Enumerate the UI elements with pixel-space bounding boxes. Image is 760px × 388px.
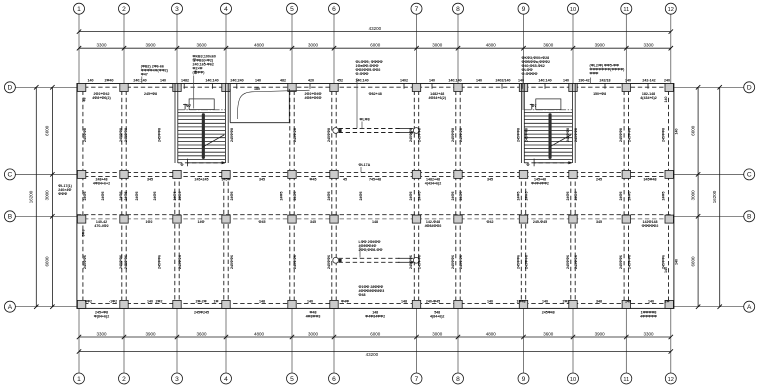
svg-text:190-42: 190-42 bbox=[578, 78, 589, 82]
svg-text:9: 9 bbox=[522, 6, 526, 13]
svg-text:Φ7: Φ7 bbox=[532, 104, 537, 108]
svg-text:245ΦΦ6: 245ΦΦ6 bbox=[574, 255, 578, 269]
svg-text:245ΦΦ6: 245ΦΦ6 bbox=[293, 255, 297, 269]
grid bubble 12 bottom bbox=[665, 373, 676, 384]
svg-text:140: 140 bbox=[625, 299, 631, 303]
svg-text:348: 348 bbox=[596, 299, 602, 303]
stair S1 landing rect bbox=[189, 99, 214, 110]
grid bubble 11 top bbox=[621, 3, 632, 14]
grid 7 beam dashed pair bbox=[413, 84, 415, 309]
svg-text:ΦLΦ8: ΦLΦ8 bbox=[360, 117, 370, 121]
svg-text:Φ7: Φ7 bbox=[186, 104, 191, 108]
svg-text:10: 10 bbox=[570, 377, 576, 383]
bottom overall dimension line bbox=[79, 351, 671, 353]
svg-text:24Φ5: 24Φ5 bbox=[293, 192, 297, 201]
svg-text:B: B bbox=[8, 214, 13, 221]
svg-text:24Φ5: 24Φ5 bbox=[525, 192, 529, 201]
svg-text:ΦΦΦ: ΦΦΦ bbox=[590, 72, 599, 76]
svg-text:245ΦΦ6: 245ΦΦ6 bbox=[459, 255, 463, 269]
svg-text:24Φ5: 24Φ5 bbox=[566, 192, 570, 201]
svg-text:452: 452 bbox=[337, 78, 343, 82]
svg-text:4Φ84+6+2: 4Φ84+6+2 bbox=[93, 182, 110, 186]
svg-text:4800: 4800 bbox=[486, 331, 497, 336]
svg-text:2: 2 bbox=[122, 6, 126, 13]
stair S1 left wall bbox=[174, 84, 176, 164]
grid bubble C left bbox=[4, 169, 15, 180]
svg-text:45: 45 bbox=[343, 178, 347, 182]
svg-text:345: 345 bbox=[487, 178, 493, 182]
svg-text:24Φ5: 24Φ5 bbox=[178, 192, 182, 201]
grid bubble 5 top bbox=[287, 3, 298, 14]
svg-text:24Φ5: 24Φ5 bbox=[135, 192, 139, 201]
svg-text:140: 140 bbox=[648, 299, 654, 303]
svg-text:24Φ5: 24Φ5 bbox=[101, 192, 105, 201]
svg-text:3000: 3000 bbox=[308, 331, 319, 336]
svg-text:245ΦΦ6: 245ΦΦ6 bbox=[661, 255, 665, 269]
svg-text:14Φ: 14Φ bbox=[198, 220, 205, 224]
svg-text:470-4Φ2: 470-4Φ2 bbox=[94, 224, 108, 228]
horizontal grid lines left/right bbox=[15, 87, 743, 306]
grid bubble 3 bottom bbox=[172, 373, 183, 384]
svg-text:4800: 4800 bbox=[254, 331, 265, 336]
svg-text:245ΦΦ8: 245ΦΦ8 bbox=[459, 128, 463, 142]
svg-text:2Φ40: 2Φ40 bbox=[105, 78, 114, 82]
grid bubble 10 bottom bbox=[568, 373, 579, 384]
svg-text:4(84+6)2: 4(84+6)2 bbox=[430, 315, 445, 319]
grid bubble A left bbox=[4, 301, 15, 312]
svg-text:1Φ48: 1Φ48 bbox=[517, 299, 526, 303]
svg-text:C: C bbox=[747, 172, 752, 179]
svg-text:12: 12 bbox=[668, 7, 674, 13]
svg-text:9: 9 bbox=[522, 376, 526, 383]
svg-text:Φ: Φ bbox=[527, 163, 530, 167]
svg-text:140: 140 bbox=[307, 299, 313, 303]
svg-text:24Φ5: 24Φ5 bbox=[83, 192, 87, 201]
svg-text:245ΦΦ6: 245ΦΦ6 bbox=[517, 255, 521, 269]
svg-text:(串ΦΦ): (串ΦΦ) bbox=[193, 70, 206, 75]
grid bubble 11 bottom bbox=[621, 373, 632, 384]
leader 180 slab bbox=[237, 90, 309, 119]
svg-text:24Φ5: 24Φ5 bbox=[451, 192, 455, 201]
stair S2 treads bbox=[524, 112, 572, 159]
svg-text:3300: 3300 bbox=[96, 43, 107, 48]
grid bubble B left bbox=[4, 211, 15, 222]
svg-text:245ΦΦ6: 245ΦΦ6 bbox=[119, 255, 123, 269]
svg-text:16200: 16200 bbox=[712, 190, 717, 203]
stair S2 break diagonal bbox=[549, 135, 571, 147]
svg-text:4: 4 bbox=[224, 6, 228, 13]
svg-text:3900: 3900 bbox=[595, 43, 606, 48]
svg-text:140: 140 bbox=[625, 78, 631, 82]
svg-text:Φ4Φ84ΦΦ2: Φ4Φ84ΦΦ2 bbox=[365, 315, 385, 319]
svg-text:4: 4 bbox=[224, 376, 228, 383]
svg-text:6600: 6600 bbox=[45, 256, 50, 267]
svg-text:140: 140 bbox=[675, 129, 679, 135]
svg-text:24Φ5: 24Φ5 bbox=[661, 192, 665, 201]
svg-text:240;240: 240;240 bbox=[230, 78, 243, 82]
svg-text:180: 180 bbox=[254, 87, 260, 91]
svg-text:242-142: 242-142 bbox=[642, 78, 655, 82]
svg-text:245ΦΦ6: 245ΦΦ6 bbox=[525, 255, 529, 269]
grid bubble 9 bottom bbox=[518, 373, 529, 384]
svg-text:3900: 3900 bbox=[145, 43, 156, 48]
svg-text:Φ-ΦΦΦΦ: Φ-ΦΦΦΦ bbox=[522, 72, 538, 76]
machine room solid walls bay 4-5 bbox=[229, 89, 231, 123]
svg-text:245ΦΦ6: 245ΦΦ6 bbox=[418, 255, 422, 269]
svg-text:D: D bbox=[747, 85, 752, 92]
right span dimension line bbox=[697, 87, 699, 306]
svg-text:ΦΦΦ: ΦΦΦ bbox=[58, 192, 67, 196]
stair S1 bottom dashed beam bbox=[178, 162, 226, 164]
svg-text:Φ45: Φ45 bbox=[259, 220, 266, 224]
svg-text:245ΦΦ6: 245ΦΦ6 bbox=[409, 255, 413, 269]
grid 11 beam dashed pair bbox=[623, 84, 625, 309]
svg-text:150+Φ8: 150+Φ8 bbox=[593, 92, 606, 96]
right overall dimension line bbox=[719, 87, 721, 306]
svg-text:245ΦΦ8: 245ΦΦ8 bbox=[566, 128, 570, 142]
svg-text:2Φ-2Φ: 2Φ-2Φ bbox=[195, 299, 206, 303]
grid bubble 3 top bbox=[172, 3, 183, 14]
stair S2 landing rect bbox=[536, 99, 561, 110]
svg-text:3600: 3600 bbox=[543, 331, 554, 336]
grid bubble 1 top bbox=[74, 3, 85, 14]
svg-text:8: 8 bbox=[456, 376, 460, 383]
svg-text:245Φ48: 245Φ48 bbox=[542, 311, 555, 315]
svg-text:3000: 3000 bbox=[308, 43, 319, 48]
svg-text:4800: 4800 bbox=[254, 43, 265, 48]
svg-text:240;140: 240;140 bbox=[133, 78, 146, 82]
svg-text:Φ(84+6)2: Φ(84+6)2 bbox=[94, 315, 109, 319]
grid bubble 12 top bbox=[665, 3, 676, 14]
svg-text:245ΦΦ8: 245ΦΦ8 bbox=[418, 128, 422, 142]
grid bubble 9 top bbox=[518, 3, 529, 14]
grid 4 beam dashed pair bbox=[223, 174, 225, 308]
svg-text:12: 12 bbox=[668, 377, 674, 383]
svg-text:4Φ2: 4Φ2 bbox=[85, 299, 92, 303]
svg-text:245ΦΦ6: 245ΦΦ6 bbox=[83, 255, 87, 269]
stair S2 level mark bbox=[531, 104, 533, 110]
svg-text:245ΦΦ8: 245ΦΦ8 bbox=[327, 128, 331, 142]
stair S2 bottom dashed beam bbox=[524, 162, 572, 164]
stair S2 left wall bbox=[521, 84, 523, 164]
mid beam B-A bay 6-7 dashed bbox=[339, 257, 401, 259]
svg-text:245ΦΦ8: 245ΦΦ8 bbox=[574, 128, 578, 142]
svg-text:6: 6 bbox=[332, 6, 336, 13]
stair S1 right wall bbox=[224, 84, 226, 164]
svg-text:245ΦΦ8: 245ΦΦ8 bbox=[293, 128, 297, 142]
grid 9 beam dashed pair bbox=[520, 174, 522, 308]
stair S2 right wall bbox=[571, 84, 573, 164]
top span dimension line bbox=[79, 47, 671, 49]
svg-text:245ΦΦ8: 245ΦΦ8 bbox=[158, 128, 162, 142]
grid bubble D right bbox=[744, 82, 755, 93]
svg-text:1: 1 bbox=[77, 376, 81, 383]
svg-text:345Φ48: 345Φ48 bbox=[644, 178, 657, 182]
svg-text:148: 148 bbox=[259, 299, 265, 303]
svg-text:140: 140 bbox=[664, 97, 668, 103]
svg-text:4Φ8+Φ6Φ: 4Φ8+Φ6Φ bbox=[305, 96, 322, 100]
svg-text:11: 11 bbox=[623, 377, 629, 383]
svg-text:245: 245 bbox=[596, 178, 602, 182]
svg-text:1: 1 bbox=[77, 6, 81, 13]
grid bubble 10 top bbox=[568, 3, 579, 14]
svg-text:24Φ5: 24Φ5 bbox=[173, 192, 177, 201]
svg-text:4ΦΦΦΦΦ: 4ΦΦΦΦΦ bbox=[640, 315, 657, 319]
svg-text:6000: 6000 bbox=[370, 331, 381, 336]
svg-text:245ΦΦ8: 245ΦΦ8 bbox=[661, 128, 665, 142]
vertical grid lines top bbox=[79, 14, 671, 373]
svg-text:43200: 43200 bbox=[369, 26, 382, 31]
svg-text:140;140: 140;140 bbox=[448, 78, 461, 82]
grid bubble 4 top bbox=[221, 3, 232, 14]
svg-text:3000: 3000 bbox=[45, 190, 50, 201]
columns bbox=[77, 84, 85, 92]
svg-text:10: 10 bbox=[570, 7, 576, 13]
svg-text:3000: 3000 bbox=[432, 331, 443, 336]
grid bubble 6 top bbox=[329, 3, 340, 14]
grid bubble A right bbox=[744, 301, 755, 312]
grid 8 beam dashed pair bbox=[455, 84, 457, 309]
svg-text:245ΦΦ8: 245ΦΦ8 bbox=[451, 128, 455, 142]
svg-text:245ΦΦ6: 245ΦΦ6 bbox=[178, 255, 182, 269]
grid bubble 5 bottom bbox=[287, 373, 298, 384]
svg-text:3300: 3300 bbox=[643, 331, 654, 336]
svg-text:3900: 3900 bbox=[595, 331, 606, 336]
grid bubble 7 bottom bbox=[411, 373, 422, 384]
svg-text:345: 345 bbox=[596, 220, 602, 224]
svg-text:140: 140 bbox=[429, 78, 435, 82]
svg-text:140: 140 bbox=[675, 259, 679, 265]
grid bubble B right bbox=[744, 211, 755, 222]
svg-text:245ΦΦ6: 245ΦΦ6 bbox=[619, 255, 623, 269]
svg-text:Φ47: Φ47 bbox=[141, 73, 148, 77]
stair S1 center rail bbox=[202, 113, 205, 159]
svg-text:5: 5 bbox=[290, 376, 294, 383]
svg-text:4Φ34+6(2): 4Φ34+6(2) bbox=[428, 96, 446, 100]
svg-text:140: 140 bbox=[563, 78, 569, 82]
svg-text:140: 140 bbox=[88, 78, 94, 82]
svg-text:C: C bbox=[8, 172, 13, 179]
bottom span dimension line bbox=[79, 336, 671, 338]
grid bubble 4 bottom bbox=[221, 373, 232, 384]
stair S1 level mark bbox=[184, 104, 186, 110]
svg-text:ΦΦΦΦΦ2: ΦΦΦΦΦ2 bbox=[642, 224, 659, 228]
svg-text:A: A bbox=[747, 304, 752, 311]
svg-text:6: 6 bbox=[332, 376, 336, 383]
stair S1 down arrow bbox=[186, 159, 188, 167]
svg-text:345Φ: 345Φ bbox=[222, 178, 231, 182]
svg-text:245ΦΦ8: 245ΦΦ8 bbox=[119, 128, 123, 142]
stair S2 center rail bbox=[549, 113, 552, 159]
svg-text:3900: 3900 bbox=[145, 331, 156, 336]
svg-text:420: 420 bbox=[308, 78, 314, 82]
svg-text:140: 140 bbox=[487, 299, 493, 303]
svg-text:245ΦΦ6: 245ΦΦ6 bbox=[230, 255, 234, 269]
grid bubble 7 top bbox=[411, 3, 422, 14]
svg-text:Φ-ΦΦΦ: Φ-ΦΦΦ bbox=[356, 72, 369, 76]
svg-text:3600: 3600 bbox=[543, 43, 554, 48]
svg-text:4800: 4800 bbox=[486, 43, 497, 48]
svg-text:140;140: 140;140 bbox=[205, 78, 218, 82]
svg-text:245ΦΦ8: 245ΦΦ8 bbox=[628, 128, 632, 142]
svg-text:3000: 3000 bbox=[690, 190, 695, 201]
svg-text:43200: 43200 bbox=[366, 352, 379, 357]
svg-text:11: 11 bbox=[623, 7, 629, 13]
top overall dimension line bbox=[79, 31, 671, 33]
svg-text:6600: 6600 bbox=[45, 125, 50, 136]
svg-text:245ΦΦ8: 245ΦΦ8 bbox=[83, 128, 87, 142]
svg-text:245ΦΦ6: 245ΦΦ6 bbox=[451, 255, 455, 269]
grid 6 beam dashed pair bbox=[331, 84, 333, 309]
svg-text:148: 148 bbox=[372, 220, 378, 224]
svg-text:245ΦΦ6: 245ΦΦ6 bbox=[327, 255, 331, 269]
svg-text:Φ4Φ: Φ4Φ bbox=[341, 299, 349, 303]
svg-text:3600: 3600 bbox=[196, 43, 207, 48]
svg-text:24Φ5: 24Φ5 bbox=[359, 192, 363, 201]
svg-text:D: D bbox=[8, 85, 13, 92]
grid bubble 1 bottom bbox=[74, 373, 85, 384]
grid bubble D left bbox=[4, 82, 15, 93]
svg-text:1Φ: 1Φ bbox=[214, 299, 219, 303]
row C beam dashed lines bbox=[77, 171, 674, 173]
svg-text:745+48: 745+48 bbox=[369, 178, 381, 182]
stair S2 down arrow bbox=[533, 159, 535, 167]
building outline bbox=[77, 84, 674, 309]
svg-text:4Φ8+Φ6(2): 4Φ8+Φ6(2) bbox=[92, 96, 111, 100]
svg-text:Φ: Φ bbox=[181, 163, 184, 167]
svg-text:24Φ5: 24Φ5 bbox=[459, 192, 463, 201]
svg-text:6000: 6000 bbox=[370, 43, 381, 48]
svg-text:B: B bbox=[747, 214, 752, 221]
left span dimension line bbox=[51, 87, 53, 306]
svg-text:245ΦΦ6: 245ΦΦ6 bbox=[158, 255, 162, 269]
svg-text:245ΦΦ6: 245ΦΦ6 bbox=[566, 255, 570, 269]
svg-text:Φ4Φ4ΦΦ2: Φ4Φ4ΦΦ2 bbox=[531, 182, 549, 186]
svg-text:240: 240 bbox=[664, 78, 670, 82]
svg-text:24Φ5: 24Φ5 bbox=[124, 192, 128, 201]
svg-text:2ΦΦ,ΦΦ8-ΦΦ: 2ΦΦ,ΦΦ8-ΦΦ bbox=[359, 248, 383, 252]
svg-text:1402: 1402 bbox=[400, 78, 408, 82]
svg-text:482: 482 bbox=[280, 78, 286, 82]
svg-text:24Φ5: 24Φ5 bbox=[517, 192, 521, 201]
svg-text:24Φ5: 24Φ5 bbox=[153, 192, 157, 201]
row D beam dashed line bbox=[77, 86, 674, 88]
svg-text:245-Φ45: 245-Φ45 bbox=[533, 220, 547, 224]
grid bubble 8 bottom bbox=[453, 373, 464, 384]
svg-text:1482: 1482 bbox=[181, 78, 189, 82]
mid beam D-C bay 6-7 dashed bbox=[339, 128, 401, 130]
grid 12 inner beam dashed bbox=[668, 84, 670, 309]
svg-text:7: 7 bbox=[415, 376, 419, 383]
left overall dimension line bbox=[35, 87, 37, 306]
svg-text:24Φ5: 24Φ5 bbox=[628, 192, 632, 201]
svg-text:140;140: 140;140 bbox=[355, 78, 368, 82]
svg-text:3: 3 bbox=[175, 376, 179, 383]
svg-text:Φ45: Φ45 bbox=[310, 178, 317, 182]
svg-text:4Φ8ΦΦ3: 4Φ8ΦΦ3 bbox=[306, 315, 321, 319]
svg-text:245ΦΦ8: 245ΦΦ8 bbox=[517, 128, 521, 142]
svg-text:245ΦΦ8: 245ΦΦ8 bbox=[230, 128, 234, 142]
svg-text:6600: 6600 bbox=[690, 125, 695, 136]
svg-text:242/18: 242/18 bbox=[600, 78, 611, 82]
svg-text:140: 140 bbox=[160, 78, 166, 82]
svg-text:345: 345 bbox=[259, 178, 265, 182]
stair S1 break diagonal bbox=[202, 135, 224, 147]
svg-text:48: 48 bbox=[83, 98, 87, 102]
svg-text:245ΦΦ8: 245ΦΦ8 bbox=[124, 128, 128, 142]
svg-text:140: 140 bbox=[147, 299, 153, 303]
grid 3 beam dashed pair bbox=[174, 174, 176, 308]
svg-text:140: 140 bbox=[664, 267, 668, 273]
svg-text:245ΦΦ8: 245ΦΦ8 bbox=[409, 128, 413, 142]
svg-text:140;140: 140;140 bbox=[538, 78, 551, 82]
svg-text:240-Φ45: 240-Φ45 bbox=[426, 299, 440, 303]
svg-text:245ΦΦ8: 245ΦΦ8 bbox=[525, 128, 529, 142]
svg-text:4(434+6)2: 4(434+6)2 bbox=[640, 96, 656, 100]
svg-text:3300: 3300 bbox=[643, 43, 654, 48]
svg-text:24Φ5: 24Φ5 bbox=[280, 192, 284, 201]
svg-text:16200: 16200 bbox=[29, 190, 34, 203]
svg-text:3Φ8: 3Φ8 bbox=[82, 230, 86, 237]
svg-text:Φ48: Φ48 bbox=[359, 293, 366, 297]
svg-text:2402/140: 2402/140 bbox=[496, 78, 511, 82]
grid 5 beam dashed pair bbox=[289, 84, 291, 309]
grid bubble 2 bottom bbox=[119, 373, 130, 384]
grid 1 inner beam dashed bbox=[82, 84, 84, 309]
svg-text:5: 5 bbox=[290, 6, 294, 13]
svg-text:345: 345 bbox=[147, 178, 153, 182]
annotation texts bbox=[58, 55, 678, 319]
row B beam dashed lines bbox=[77, 214, 674, 216]
stair S1 dash-dot break line bbox=[178, 109, 226, 111]
svg-text:3600: 3600 bbox=[196, 331, 207, 336]
grid bubble C right bbox=[744, 169, 755, 180]
svg-text:ΦL17A: ΦL17A bbox=[359, 163, 371, 167]
svg-text:24Φ5: 24Φ5 bbox=[619, 192, 623, 201]
svg-text:245+Φ8: 245+Φ8 bbox=[144, 92, 157, 96]
svg-text:-1Φ2: -1Φ2 bbox=[109, 299, 117, 303]
svg-text:345: 345 bbox=[310, 220, 316, 224]
svg-text:24Φ5: 24Φ5 bbox=[418, 192, 422, 201]
svg-text:3300: 3300 bbox=[96, 331, 107, 336]
svg-text:245ΦΦ6: 245ΦΦ6 bbox=[628, 255, 632, 269]
svg-text:24Φ5: 24Φ5 bbox=[327, 192, 331, 201]
svg-text:24Φ5: 24Φ5 bbox=[574, 192, 578, 201]
svg-text:7: 7 bbox=[415, 6, 419, 13]
svg-text:24Φ5: 24Φ5 bbox=[230, 192, 234, 201]
svg-text:3000: 3000 bbox=[432, 43, 443, 48]
svg-text:245+245: 245+245 bbox=[194, 178, 208, 182]
row A beam dashed line bbox=[77, 303, 674, 305]
svg-text:2Φ2: 2Φ2 bbox=[156, 299, 163, 303]
grid bubble 6 bottom bbox=[329, 373, 340, 384]
svg-text:2Φ2: 2Φ2 bbox=[563, 299, 570, 303]
svg-text:245ΦΦ6: 245ΦΦ6 bbox=[124, 255, 128, 269]
svg-text:140: 140 bbox=[476, 78, 482, 82]
svg-text:24Φ5: 24Φ5 bbox=[119, 192, 123, 201]
svg-text:8: 8 bbox=[456, 6, 460, 13]
grid 10 beam dashed pair bbox=[570, 174, 572, 308]
stair S2 dash-dot break line bbox=[524, 109, 572, 111]
svg-text:Φ82+48: Φ82+48 bbox=[369, 92, 382, 96]
svg-text:4Φ84ΦΦ2: 4Φ84ΦΦ2 bbox=[425, 224, 442, 228]
svg-text:140: 140 bbox=[255, 78, 261, 82]
svg-text:148: 148 bbox=[401, 299, 407, 303]
svg-text:2: 2 bbox=[122, 376, 126, 383]
svg-text:6600: 6600 bbox=[690, 256, 695, 267]
grid bubble 2 top bbox=[119, 3, 130, 14]
stair S1 treads bbox=[178, 112, 226, 159]
